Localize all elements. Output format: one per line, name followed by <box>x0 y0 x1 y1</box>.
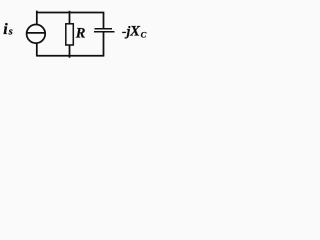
svg-text:X: X <box>129 23 141 39</box>
svg-text:s: s <box>8 26 13 37</box>
svg-text:i: i <box>3 21 8 38</box>
svg-text:R: R <box>75 26 86 42</box>
svg-text:C: C <box>141 30 147 40</box>
